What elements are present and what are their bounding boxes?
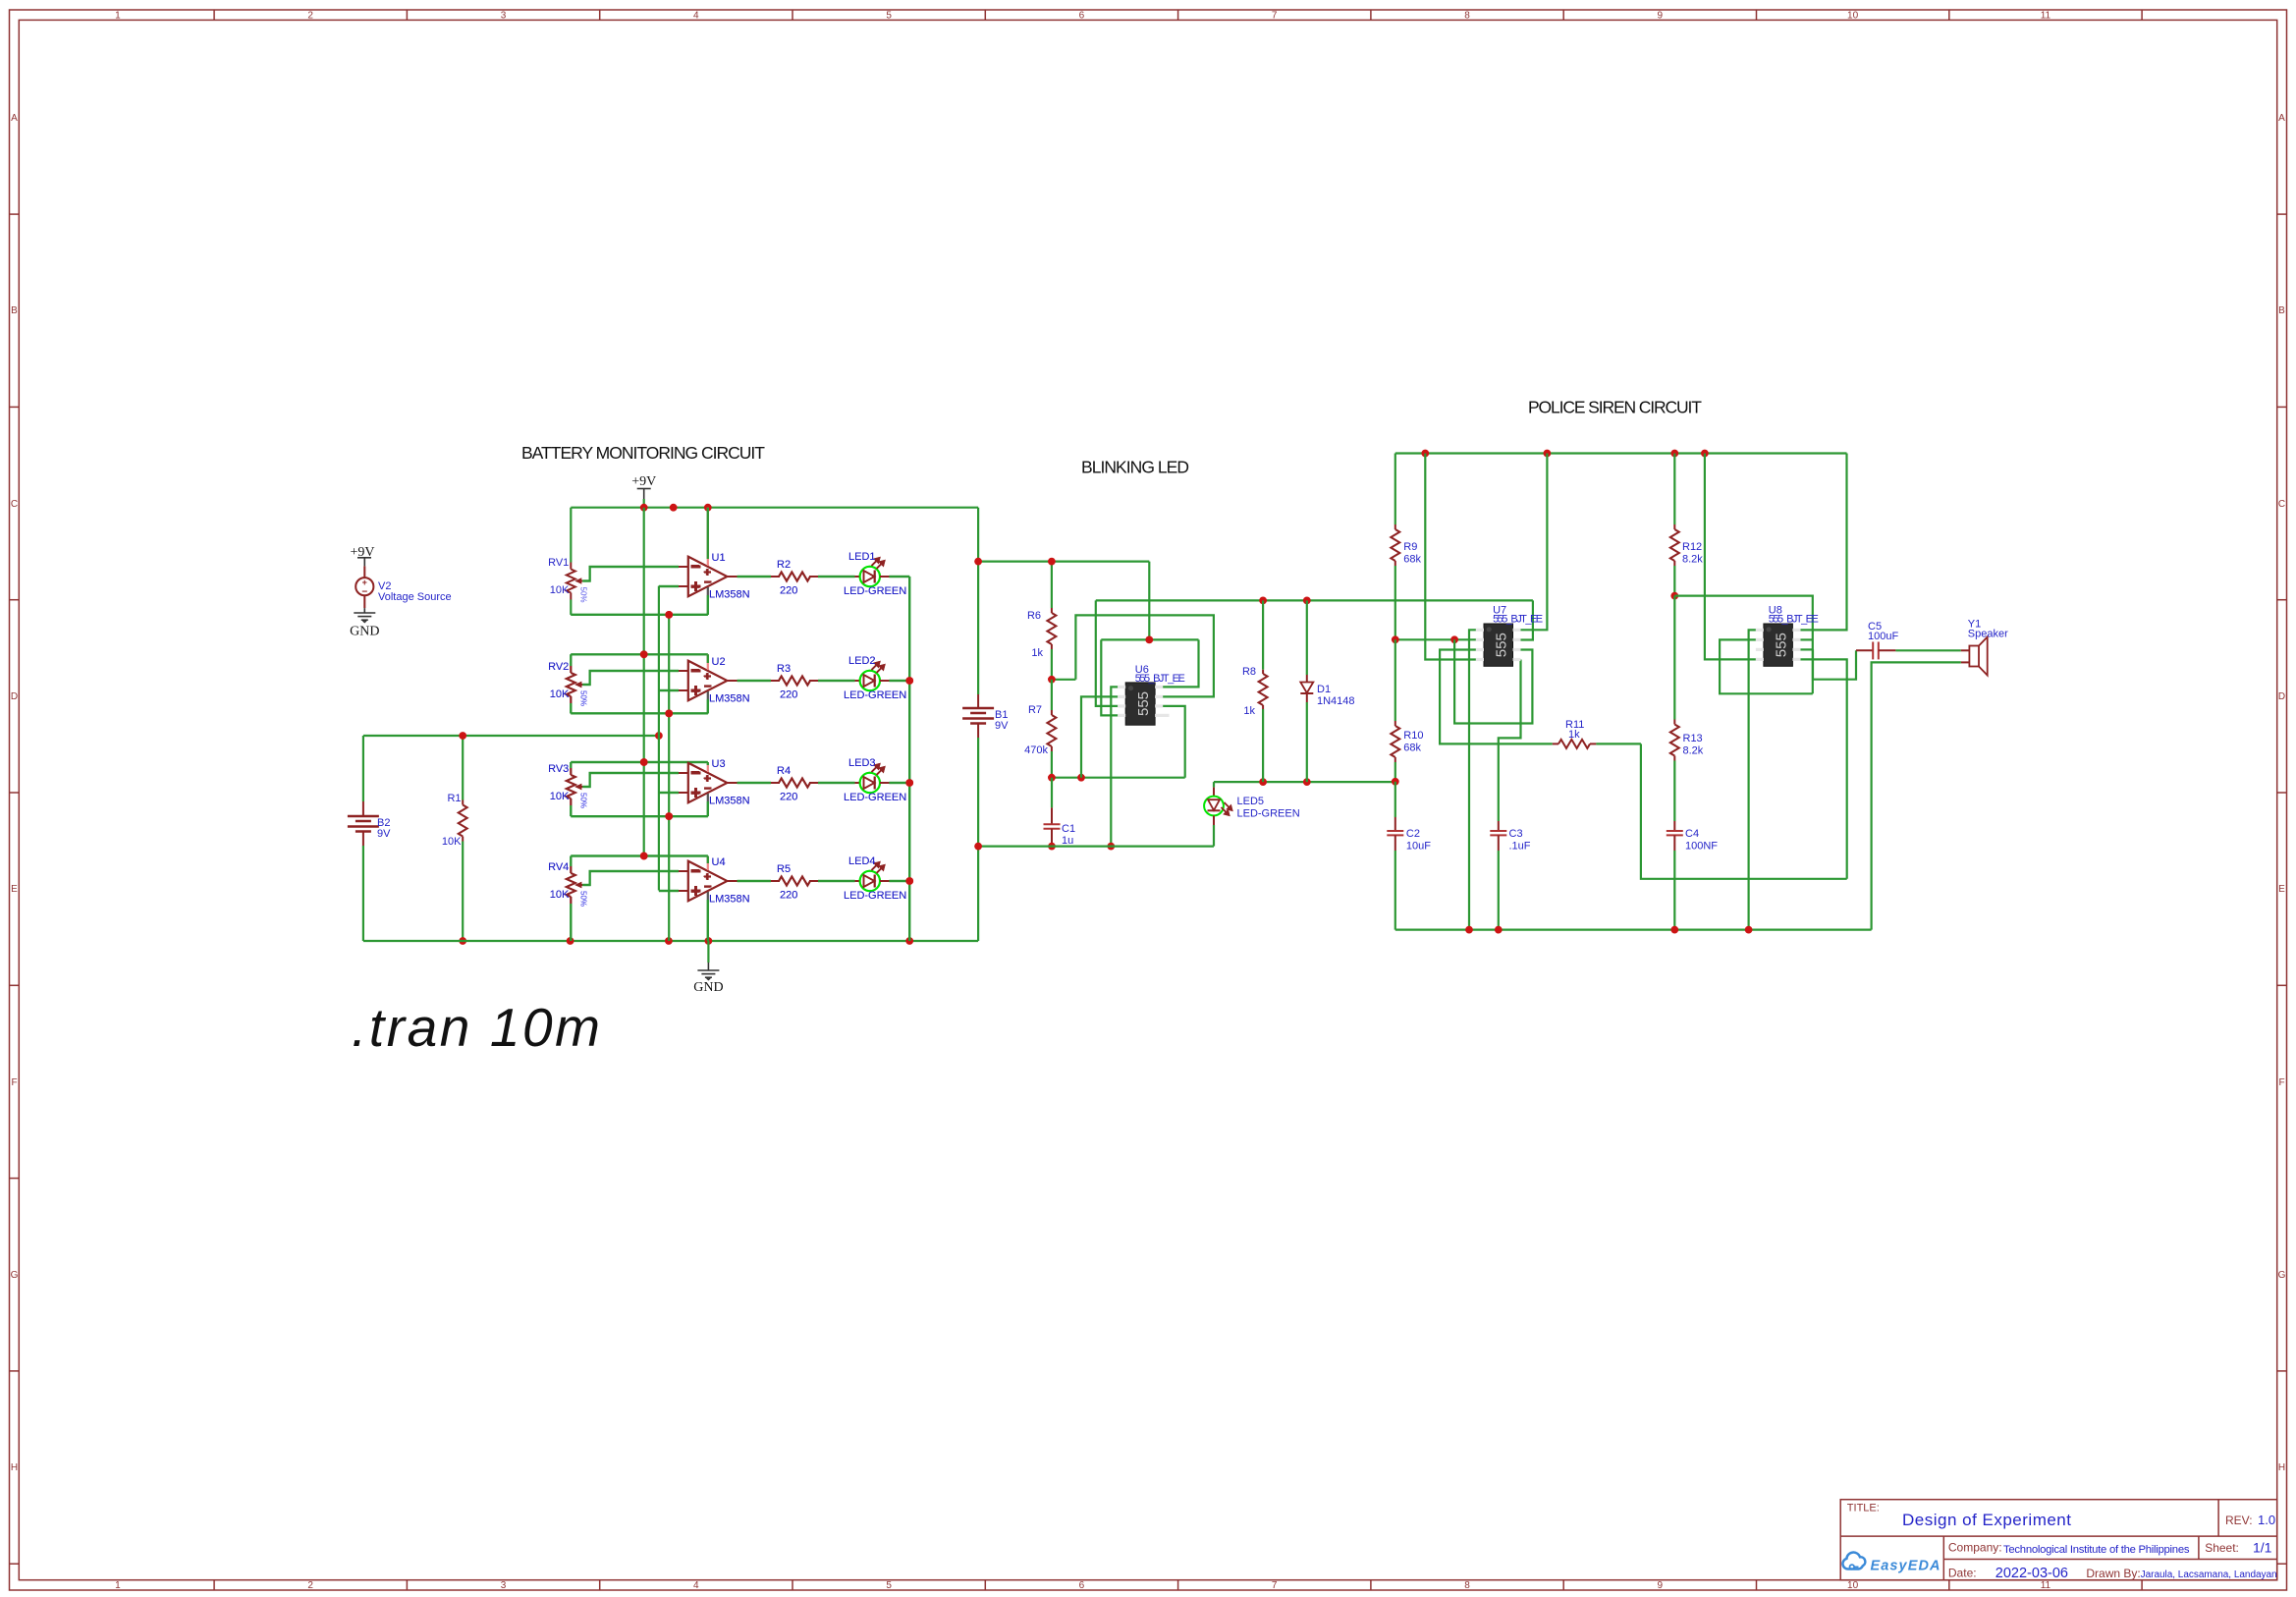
svg-text:1/1: 1/1 xyxy=(2253,1540,2272,1556)
svg-text:555: 555 xyxy=(1135,691,1152,716)
node R1 bottom xyxy=(459,937,466,945)
wire plus input U2 xyxy=(659,689,679,691)
svg-text:10K: 10K xyxy=(550,688,570,700)
svg-text:10: 10 xyxy=(1847,11,1859,22)
wire R4 to LED3 xyxy=(818,782,855,784)
wire blink bottom rail xyxy=(978,845,1214,847)
svg-text:D: D xyxy=(11,691,18,702)
wire U7 pin L1 to gnd rail xyxy=(1469,630,1476,929)
svg-text:D1: D1 xyxy=(1317,684,1331,695)
svg-text:Speaker: Speaker xyxy=(1968,629,2008,640)
wire bottom GND rail xyxy=(363,940,978,942)
op-amp U4 LM358N xyxy=(679,856,750,942)
wire vcc loop left to pin L4 xyxy=(1101,639,1118,715)
svg-text:+: + xyxy=(690,683,700,701)
wire U1 output to R2 xyxy=(738,576,771,578)
wire R3 to LED2 xyxy=(818,680,855,682)
svg-text:2: 2 xyxy=(307,1580,313,1591)
svg-text:5: 5 xyxy=(886,11,892,22)
LED2 LED-GREEN xyxy=(844,655,906,701)
potentiometer RV4 xyxy=(548,856,587,942)
op-amp U4 LM358N xyxy=(679,856,750,942)
ruler ticks right xyxy=(2277,214,2287,1564)
TITLE BLOCK xyxy=(1840,1500,2277,1581)
EasyEDA logo xyxy=(1842,1553,1940,1574)
wire R2 to LED1 xyxy=(818,576,855,578)
svg-text:.tran 10m: .tran 10m xyxy=(352,997,600,1058)
wire U8 pin R3 out jog to C5 xyxy=(1801,648,1814,650)
resistor R2 220 xyxy=(771,559,818,597)
svg-text:1k: 1k xyxy=(1243,705,1255,717)
wire pin L2 drop xyxy=(1081,696,1118,777)
resistor R5 220 xyxy=(771,863,818,902)
wire V- row U3 xyxy=(571,815,708,817)
wire RV4 wiper to U4 minus xyxy=(582,871,679,885)
wire plus input U2 xyxy=(659,689,679,691)
wire V- row U2 xyxy=(571,712,708,714)
wire LED2 to LED rail xyxy=(889,680,909,682)
wire plus input U1 xyxy=(659,585,679,587)
svg-text:3: 3 xyxy=(501,1580,507,1591)
svg-text:+: + xyxy=(690,578,700,597)
svg-text:11: 11 xyxy=(2041,11,2051,22)
op-amp U1 LM358N xyxy=(679,508,750,615)
svg-text:2: 2 xyxy=(307,11,313,22)
wire discharge loop row xyxy=(1075,615,1214,696)
wire LED2 to LED rail xyxy=(889,680,909,682)
svg-text:50%: 50% xyxy=(578,587,587,603)
wire B1 branch down xyxy=(977,508,979,694)
svg-text:R3: R3 xyxy=(777,663,791,675)
svg-text:10K: 10K xyxy=(550,889,570,901)
svg-text:R2: R2 xyxy=(777,559,791,571)
wire R8/D1 bottom row xyxy=(1214,781,1395,783)
wire LED3 to LED rail xyxy=(889,782,909,784)
svg-text:LED-GREEN: LED-GREEN xyxy=(1237,808,1300,820)
svg-text:R5: R5 xyxy=(777,863,791,875)
wire U2 output to R3 xyxy=(738,680,771,682)
op-amp U2 LM358N xyxy=(679,654,750,713)
resistor R8 1k xyxy=(1242,600,1268,782)
potentiometer RV1 xyxy=(548,508,587,615)
wire U2 output to R3 xyxy=(738,680,771,682)
SECTION TITLES xyxy=(352,398,1702,1059)
svg-text:100NF: 100NF xyxy=(1685,841,1718,853)
node rail bottom junctions xyxy=(567,937,574,945)
wire V+ row U4 xyxy=(571,854,708,856)
svg-text:1.0: 1.0 xyxy=(2258,1513,2275,1527)
wire U4 output to R5 xyxy=(738,880,771,882)
LED1 LED-GREEN xyxy=(844,551,906,597)
resistor R3 220 xyxy=(771,663,818,701)
wire RV2 wiper to U2 minus xyxy=(582,671,679,685)
svg-text:LED-GREEN: LED-GREEN xyxy=(844,585,906,597)
svg-text:A: A xyxy=(11,113,18,124)
wire U7 pin R4 to C3 xyxy=(1499,660,1521,822)
wire OUT row to police xyxy=(1096,599,1533,601)
svg-text:−: − xyxy=(690,861,700,880)
wire V- row U1 xyxy=(571,614,708,616)
wire pin L3 up to OUT row xyxy=(1096,600,1118,706)
svg-text:GND: GND xyxy=(693,980,723,995)
potentiometer RV2 xyxy=(548,654,587,713)
title block frame xyxy=(1840,1500,2277,1580)
resistor R5 220 xyxy=(771,863,818,902)
op-amp U3 LM358N xyxy=(679,758,750,816)
wire U7 pin L3 to R11 xyxy=(1440,650,1553,744)
svg-text:−: − xyxy=(704,576,711,589)
svg-text:4: 4 xyxy=(693,1580,699,1591)
wire vcc loop row xyxy=(1101,638,1198,640)
svg-text:9V: 9V xyxy=(995,720,1009,732)
svg-text:F: F xyxy=(11,1077,17,1088)
svg-text:U4: U4 xyxy=(712,856,726,868)
node plus-trunk to battery row xyxy=(655,732,663,740)
wire +9V trunk xyxy=(643,508,645,856)
svg-text:5: 5 xyxy=(886,1580,892,1591)
resistor R9 68k xyxy=(1391,454,1421,640)
wire LED4 to LED rail xyxy=(889,880,909,882)
svg-text:Technological Institute of the: Technological Institute of the Philippin… xyxy=(2003,1544,2190,1556)
svg-text:1: 1 xyxy=(115,1580,121,1591)
resistor R1 xyxy=(442,736,467,941)
svg-text:−: − xyxy=(704,680,711,693)
resistor R3 220 xyxy=(771,663,818,701)
svg-text:RV1: RV1 xyxy=(548,557,569,569)
ruler ticks top xyxy=(214,10,2142,20)
wire U3 output to R4 xyxy=(738,782,771,784)
node R1 top xyxy=(459,732,466,740)
svg-text:D: D xyxy=(2278,691,2285,702)
svg-text:10K: 10K xyxy=(550,584,570,596)
svg-text:7: 7 xyxy=(1272,11,1278,22)
svg-text:−: − xyxy=(690,763,700,782)
svg-text:+: + xyxy=(362,578,367,587)
svg-text:C: C xyxy=(2278,499,2285,510)
wire LED4 to LED rail xyxy=(889,880,909,882)
potentiometer RV3 xyxy=(548,762,587,816)
wire plus input U3 xyxy=(659,792,679,794)
svg-text:Jaraula, Lacsamana, Landayan: Jaraula, Lacsamana, Landayan xyxy=(2141,1569,2277,1580)
svg-text:220: 220 xyxy=(780,890,797,902)
wire U7 vcc drop to pin L4 xyxy=(1425,454,1476,660)
svg-text:LED5: LED5 xyxy=(1237,796,1265,807)
wire B2/R1 top row xyxy=(363,735,659,737)
capacitor C1 1u xyxy=(1044,778,1076,847)
wire blink top rail xyxy=(978,560,1149,562)
svg-text:Design of Experiment: Design of Experiment xyxy=(1902,1511,2071,1529)
diode D1 1N4148 xyxy=(1300,600,1354,782)
svg-text:9: 9 xyxy=(1658,1580,1664,1591)
speaker Y1 xyxy=(1961,619,2008,676)
svg-text:Sheet:: Sheet: xyxy=(2205,1541,2239,1555)
BATTERY MONITORING CIRCUIT xyxy=(348,474,978,995)
wire rail to U7 pin R1 xyxy=(1521,454,1548,631)
resistor R10 68k xyxy=(1391,639,1423,782)
svg-text:G: G xyxy=(11,1270,19,1281)
op-amp U1 LM358N xyxy=(679,508,750,615)
svg-text:LED3: LED3 xyxy=(848,757,876,769)
svg-text:50%: 50% xyxy=(578,891,587,907)
svg-text:11: 11 xyxy=(2041,1580,2051,1591)
svg-text:B: B xyxy=(2278,305,2285,316)
resistor R11 1k xyxy=(1553,719,1641,748)
svg-text:220: 220 xyxy=(780,792,797,803)
LED3 LED-GREEN xyxy=(844,757,906,803)
svg-text:R12: R12 xyxy=(1682,541,1702,553)
potentiometer RV2 xyxy=(548,654,587,713)
svg-text:470k: 470k xyxy=(1024,744,1048,756)
svg-text:−: − xyxy=(704,880,711,894)
svg-text:555_BJT_EE: 555_BJT_EE xyxy=(1135,673,1185,685)
svg-text:8: 8 xyxy=(1464,1580,1470,1591)
svg-text:Company:: Company: xyxy=(1948,1541,2002,1555)
svg-text:2022-03-06: 2022-03-06 xyxy=(1995,1566,2068,1581)
svg-text:R13: R13 xyxy=(1683,733,1703,744)
svg-text:8.2k: 8.2k xyxy=(1683,745,1704,757)
svg-text:F: F xyxy=(2278,1077,2284,1088)
svg-text:R8: R8 xyxy=(1242,666,1256,678)
capacitor C3 .1uF xyxy=(1490,821,1530,930)
wire plus input U4 xyxy=(659,890,679,892)
svg-text:LM358N: LM358N xyxy=(709,894,750,906)
potentiometer RV4 xyxy=(548,856,587,942)
svg-text:LED-GREEN: LED-GREEN xyxy=(844,689,906,701)
svg-text:EasyEDA: EasyEDA xyxy=(1871,1559,1941,1574)
svg-text:+9V: +9V xyxy=(631,474,656,489)
svg-text:3: 3 xyxy=(501,11,507,22)
wire V- row U3 xyxy=(571,815,708,817)
svg-text:1k: 1k xyxy=(1031,647,1043,659)
svg-text:A: A xyxy=(2278,113,2285,124)
wire U4 output to R5 xyxy=(738,880,771,882)
LED4 LED-GREEN xyxy=(844,855,906,902)
resistor R6 1k xyxy=(1027,562,1056,680)
BLINKING LED xyxy=(962,558,1533,941)
ruler numbers bottom xyxy=(115,1580,2050,1591)
svg-text:R4: R4 xyxy=(777,765,791,777)
svg-text:RV4: RV4 xyxy=(548,861,569,873)
wire RV4 wiper to U4 minus xyxy=(582,871,679,885)
wire LED rail xyxy=(908,577,910,941)
wire trigger row under chip xyxy=(1052,777,1185,779)
wire RV1 wiper to U1 minus xyxy=(582,567,679,581)
wire plus-input trunk xyxy=(658,586,660,891)
svg-text:10K: 10K xyxy=(550,791,570,802)
555 timer U8 xyxy=(1756,605,1819,667)
wire R11 to control row xyxy=(1641,743,1847,878)
svg-text:R10: R10 xyxy=(1403,730,1423,742)
wire R4 to LED3 xyxy=(818,782,855,784)
wire U8 pin L1 to gnd rail xyxy=(1749,630,1756,929)
svg-text:Date:: Date: xyxy=(1948,1567,1977,1580)
op-amp stages U1-U4 xyxy=(548,508,913,941)
battery B2 xyxy=(348,736,391,941)
wire plus input U4 xyxy=(659,890,679,892)
555 timer U6 xyxy=(1118,664,1185,725)
ruler numbers top xyxy=(115,11,2050,22)
wire U8 pin R2 stub join xyxy=(1801,638,1813,640)
capacitor C2 10uF xyxy=(1387,782,1431,930)
wire U8 vcc drop to pin L4 xyxy=(1705,454,1756,660)
svg-text:Voltage Source: Voltage Source xyxy=(378,591,452,603)
LED2 LED-GREEN xyxy=(844,655,906,701)
svg-text:U1: U1 xyxy=(712,552,726,564)
wire LED rail xyxy=(908,577,910,941)
svg-text:10K: 10K xyxy=(442,836,462,848)
svg-text:TITLE:: TITLE: xyxy=(1847,1503,1880,1514)
svg-text:−: − xyxy=(690,557,700,576)
svg-text:220: 220 xyxy=(780,585,797,597)
resistor R12 8.2k xyxy=(1670,454,1703,596)
ground symbol bottom xyxy=(693,941,723,995)
svg-text:B: B xyxy=(11,305,18,316)
wire LED3 to LED rail xyxy=(889,782,909,784)
voltage source V2 xyxy=(355,566,451,608)
svg-text:REV:: REV: xyxy=(2225,1514,2253,1527)
ground under V2 xyxy=(350,608,379,638)
wire LED1 to LED rail xyxy=(889,576,909,578)
svg-text:LED-GREEN: LED-GREEN xyxy=(844,890,906,902)
LED4 LED-GREEN xyxy=(844,855,906,902)
svg-text:U2: U2 xyxy=(712,656,726,668)
svg-text:R9: R9 xyxy=(1403,541,1417,553)
svg-text:555_BJT_EE: 555_BJT_EE xyxy=(1769,614,1819,626)
wire V+ row U4 xyxy=(571,854,708,856)
wire R5 to LED4 xyxy=(818,880,855,882)
battery B1 9V xyxy=(962,694,1009,941)
wire top +9V rail xyxy=(571,507,978,509)
svg-text:GND: GND xyxy=(350,625,379,639)
svg-text:LM358N: LM358N xyxy=(709,693,750,705)
net +9V (V2) xyxy=(350,545,374,566)
resistor R4 220 xyxy=(771,765,818,803)
node rail junctions xyxy=(640,504,648,512)
capacitor C5 100uF xyxy=(1856,621,1961,659)
LED5 LED-GREEN xyxy=(1204,782,1300,847)
svg-text:C3: C3 xyxy=(1509,828,1523,840)
ruler letters left xyxy=(11,113,19,1473)
svg-text:555: 555 xyxy=(1494,633,1510,657)
wire V+ row U2 xyxy=(571,653,708,655)
svg-text:1k: 1k xyxy=(1568,729,1580,741)
svg-text:100uF: 100uF xyxy=(1868,631,1898,642)
ruler letters right xyxy=(2278,113,2286,1473)
capacitor C4 100NF xyxy=(1667,821,1718,930)
svg-text:7: 7 xyxy=(1272,1580,1278,1591)
resistor R4 220 xyxy=(771,765,818,803)
svg-text:H: H xyxy=(2278,1462,2285,1473)
potentiometer RV3 xyxy=(548,762,587,816)
svg-text:BATTERY MONITORING CIRCUIT: BATTERY MONITORING CIRCUIT xyxy=(521,443,765,463)
svg-text:220: 220 xyxy=(780,689,797,701)
wire RV3 wiper to U3 minus xyxy=(582,773,679,787)
svg-text:8.2k: 8.2k xyxy=(1682,554,1703,566)
svg-text:555: 555 xyxy=(1774,633,1790,657)
op-amp U3 LM358N xyxy=(679,758,750,816)
wire police top rail xyxy=(1395,452,1847,454)
wire V+ row U3 xyxy=(571,761,708,763)
svg-text:C4: C4 xyxy=(1685,828,1699,840)
wire police bottom rail xyxy=(1395,928,1872,930)
op-amp U2 LM358N xyxy=(679,654,750,713)
resistor R7 470k xyxy=(1024,680,1056,778)
wire RV3 wiper to U3 minus xyxy=(582,773,679,787)
ruler ticks bottom xyxy=(214,1580,2142,1590)
svg-text:9: 9 xyxy=(1658,11,1664,22)
svg-text:E: E xyxy=(11,884,18,895)
wire gnd trunk xyxy=(668,615,670,941)
svg-text:−: − xyxy=(690,661,700,680)
svg-text:8: 8 xyxy=(1464,11,1470,22)
svg-text:G: G xyxy=(2278,1270,2286,1281)
LED3 LED-GREEN xyxy=(844,757,906,803)
wire LED1 to LED rail xyxy=(889,576,909,578)
wire U1 output to R2 xyxy=(738,576,771,578)
wire rail drop to vcc loop xyxy=(1148,562,1150,640)
svg-text:LED2: LED2 xyxy=(848,655,876,667)
svg-text:+: + xyxy=(690,883,700,902)
resistor R13 8.2k xyxy=(1670,596,1704,821)
wire U8 pin R4 to control row xyxy=(1801,659,1847,878)
svg-text:1N4148: 1N4148 xyxy=(1317,695,1355,707)
wire R2 to LED1 xyxy=(818,576,855,578)
resistor R2 220 xyxy=(771,559,818,597)
wire R3 to LED2 xyxy=(818,680,855,682)
svg-text:10uF: 10uF xyxy=(1406,841,1431,853)
svg-text:LED-GREEN: LED-GREEN xyxy=(844,792,906,803)
svg-text:Drawn By:: Drawn By: xyxy=(2086,1567,2140,1580)
svg-text:+: + xyxy=(690,785,700,803)
svg-text:4: 4 xyxy=(693,11,699,22)
svg-text:50%: 50% xyxy=(578,793,587,808)
svg-text:−: − xyxy=(704,782,711,796)
ruler ticks left xyxy=(10,214,20,1564)
POLICE SIREN CIRCUIT xyxy=(1387,450,2008,934)
wire RV2 wiper to U2 minus xyxy=(582,671,679,685)
svg-text:6: 6 xyxy=(1079,1580,1085,1591)
svg-text:H: H xyxy=(11,1462,18,1473)
svg-text:6: 6 xyxy=(1079,11,1085,22)
svg-text:68k: 68k xyxy=(1403,743,1421,754)
svg-text:R6: R6 xyxy=(1027,610,1041,622)
wire trigger row up to pin R3 xyxy=(1163,706,1185,778)
wire V- row U2 xyxy=(571,712,708,714)
svg-text:E: E xyxy=(2278,884,2285,895)
wire U7 trig-thres loop xyxy=(1454,639,1532,723)
wire V+ row U2 xyxy=(571,653,708,655)
wire vcc loop right to pin R1 xyxy=(1163,639,1198,687)
wire R12/R13 junction to U8 pin R2 xyxy=(1674,596,1813,694)
wire U3 output to R4 xyxy=(738,782,771,784)
svg-text:1: 1 xyxy=(115,11,121,22)
svg-text:C2: C2 xyxy=(1406,828,1420,840)
svg-text:C: C xyxy=(11,499,18,510)
svg-text:R7: R7 xyxy=(1028,704,1042,716)
svg-text:RV2: RV2 xyxy=(548,661,569,673)
wire plus input U1 xyxy=(659,585,679,587)
svg-text:C1: C1 xyxy=(1062,823,1075,835)
svg-text:9V: 9V xyxy=(377,828,391,840)
wire speaker return to gnd xyxy=(1872,662,1961,929)
svg-text:.1uF: .1uF xyxy=(1509,841,1531,853)
svg-text:POLICE SIREN CIRCUIT: POLICE SIREN CIRCUIT xyxy=(1528,398,1702,417)
wire V- row U1 xyxy=(571,614,708,616)
wire plus input U3 xyxy=(659,792,679,794)
svg-text:LM358N: LM358N xyxy=(709,796,750,807)
svg-text:LM358N: LM358N xyxy=(709,589,750,601)
svg-text:LED4: LED4 xyxy=(848,855,876,867)
